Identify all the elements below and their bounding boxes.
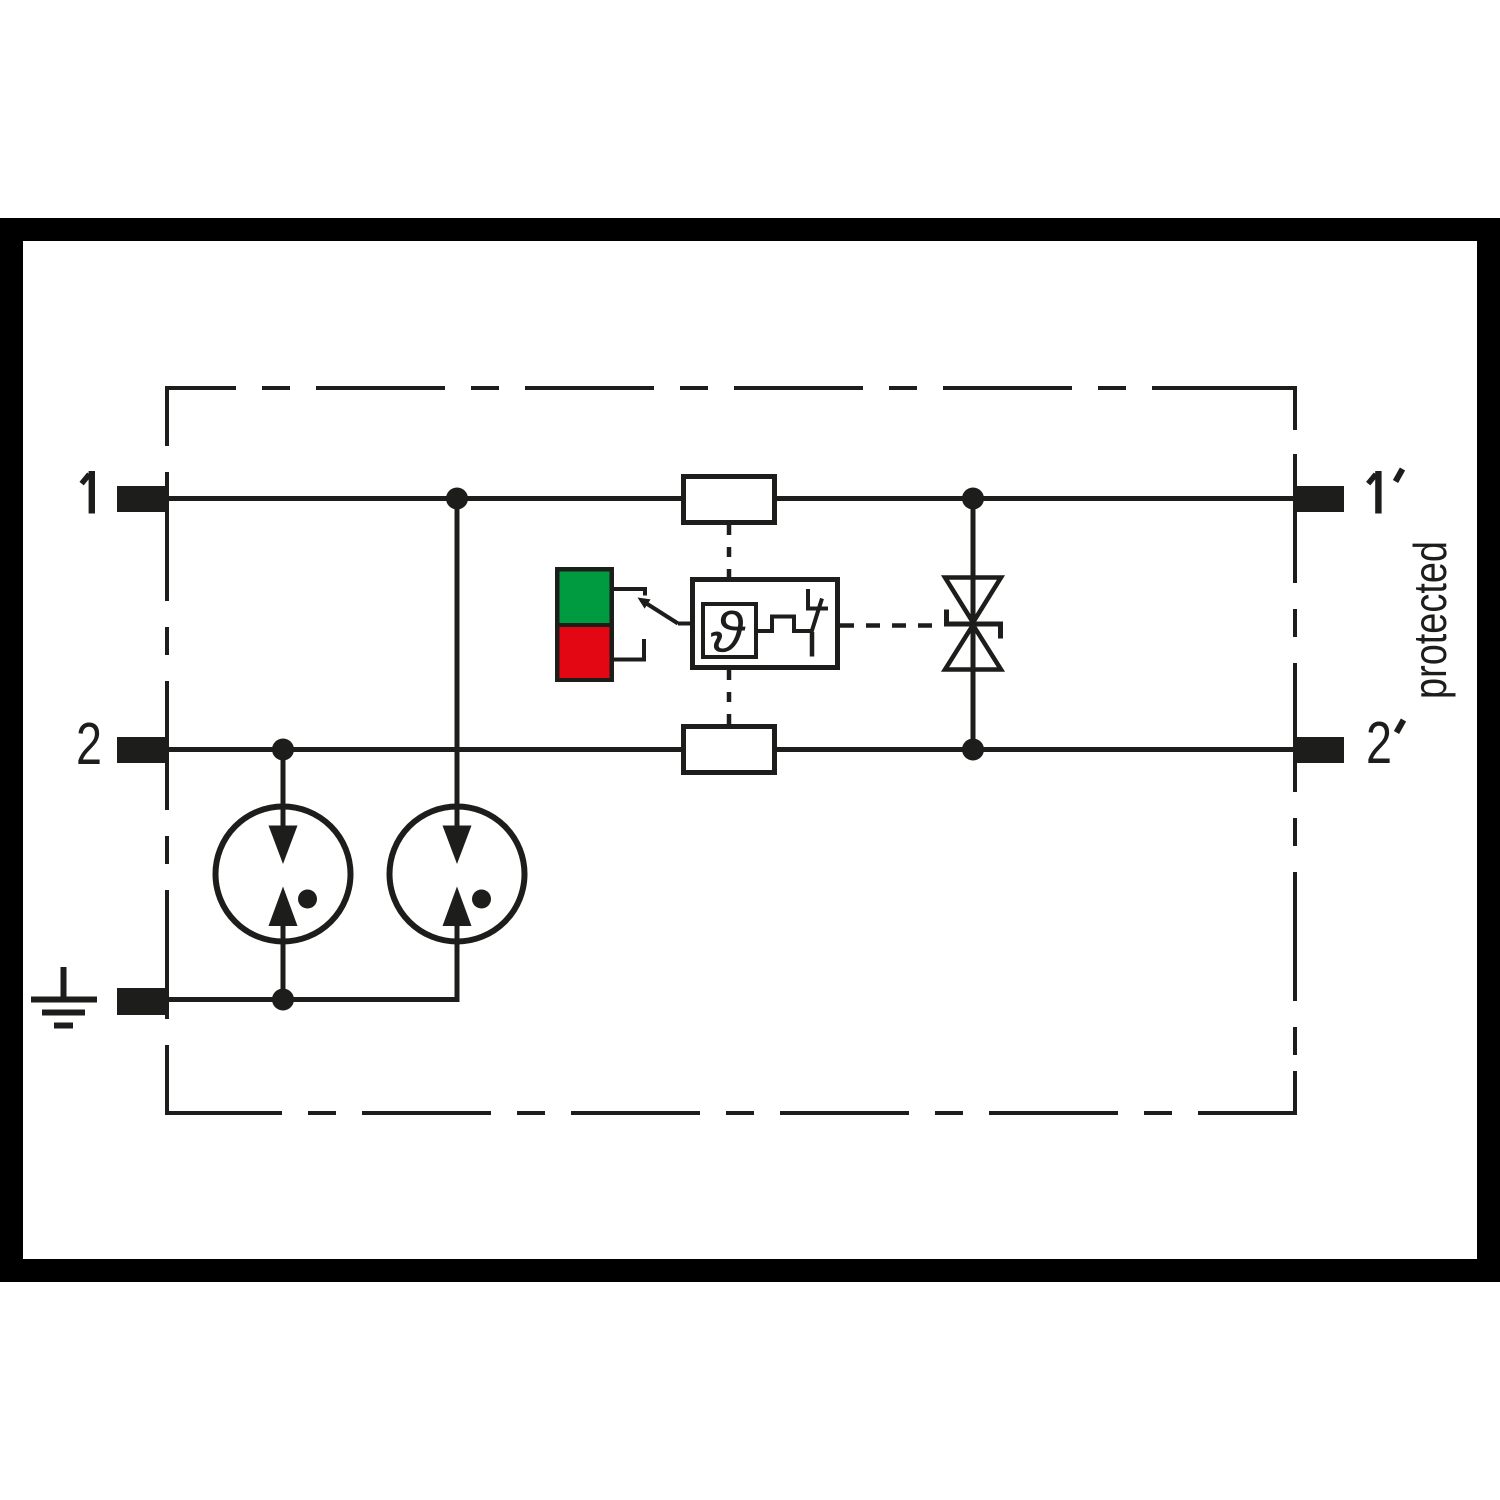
dashed link R1 to thermal disconnector xyxy=(727,525,732,577)
gas discharge tube F1 xyxy=(216,807,351,942)
diode cathode bar xyxy=(947,622,1001,627)
thermal disconnect device U1 box xyxy=(693,580,838,668)
terminal 2' xyxy=(1294,737,1344,763)
wire: earth wire to ground terminal xyxy=(166,997,460,1002)
prime mark 2' xyxy=(1397,720,1404,733)
ground symbol bar 1 xyxy=(31,997,97,1003)
F2 lower electrode xyxy=(443,887,472,927)
disconnect switch upper lead xyxy=(808,589,828,609)
label terminal 1' xyxy=(1375,471,1381,514)
signal contact lead to red field xyxy=(614,639,644,660)
svg-text:2: 2 xyxy=(1366,710,1392,776)
F1 internal lead xyxy=(281,805,286,832)
dashed link thermal disconnector to diode xyxy=(840,623,944,628)
signal contact lead to green field xyxy=(614,589,645,596)
svg-text:protected: protected xyxy=(1404,541,1456,699)
wire: branch with suppressor diode between line 1 and line 2 xyxy=(971,499,976,750)
temperature sensor box xyxy=(703,604,756,657)
ground symbol bar 2 xyxy=(42,1010,85,1016)
F1 gas dot xyxy=(298,890,317,909)
svg-text:ϑ: ϑ xyxy=(710,601,746,665)
wire: F2 bottom lead to earth wire xyxy=(455,928,460,1000)
suppressor diode V1 lower half xyxy=(945,625,1001,670)
diode cathode bar left stub xyxy=(944,610,949,627)
F2 upper electrode xyxy=(443,826,472,865)
terminal 1 xyxy=(117,486,168,512)
node on line 2 at drop to F1 xyxy=(272,739,294,761)
F2 gas dot xyxy=(472,890,491,909)
svg-text:2: 2 xyxy=(76,711,102,777)
prime mark 1' xyxy=(1396,469,1403,482)
node on line 2 at diode branch xyxy=(962,739,984,761)
changeover contact blade xyxy=(641,600,678,624)
F2 internal lead xyxy=(455,805,460,832)
resistor R2 (decoupling element in line 2) xyxy=(684,727,775,773)
wire: drop from line 2 to gas discharge tube F1 xyxy=(281,750,286,829)
surge pulse waveform xyxy=(758,617,811,632)
terminal 2 xyxy=(117,737,168,763)
disconnect switch lower lead xyxy=(810,632,815,657)
disconnect switch blade xyxy=(812,599,823,633)
protected zone corner bottom-right xyxy=(1253,1071,1295,1113)
F1 upper electrode xyxy=(269,826,298,865)
suppressor diode V1 upper half xyxy=(945,578,1001,623)
status indicator green field xyxy=(560,572,610,624)
node on line 1 at drop to F2 xyxy=(446,488,468,510)
gas discharge tube F2 xyxy=(390,807,525,942)
changeover contact arrowhead xyxy=(638,598,651,609)
ground terminal xyxy=(117,988,166,1015)
protected zone corner bottom-left xyxy=(167,1071,209,1113)
ground symbol stem xyxy=(61,967,67,1002)
label terminal 1 xyxy=(89,471,95,514)
resistor R1 (decoupling element in line 1) xyxy=(684,477,775,523)
wire: line 2 from terminal 2 to terminal 2' xyxy=(168,747,1294,752)
F1 lower electrode xyxy=(269,887,298,927)
protected zone corner top-left xyxy=(167,388,209,430)
status indicator bezel xyxy=(555,567,614,682)
node on line 1 at diode branch xyxy=(962,488,984,510)
dashed link R2 to thermal disconnector xyxy=(727,670,732,724)
wire: F1 bottom lead to earth wire xyxy=(281,928,286,1000)
changeover contact common lead xyxy=(678,622,690,626)
ground symbol bar 3 xyxy=(54,1023,73,1029)
status indicator red field xyxy=(560,627,610,678)
wire: line 1 from terminal 1 to terminal 1' xyxy=(168,496,1294,501)
node on earth wire xyxy=(272,989,294,1011)
terminal 1' xyxy=(1294,486,1344,512)
wire: drop from line 1 to gas discharge tube F2 xyxy=(455,499,460,829)
border frame of schematic card xyxy=(12,230,1489,1271)
diode cathode bar right stub xyxy=(998,622,1003,639)
protected zone dash-dot border xyxy=(167,388,1295,1113)
protected zone corner top-right xyxy=(1253,388,1295,430)
